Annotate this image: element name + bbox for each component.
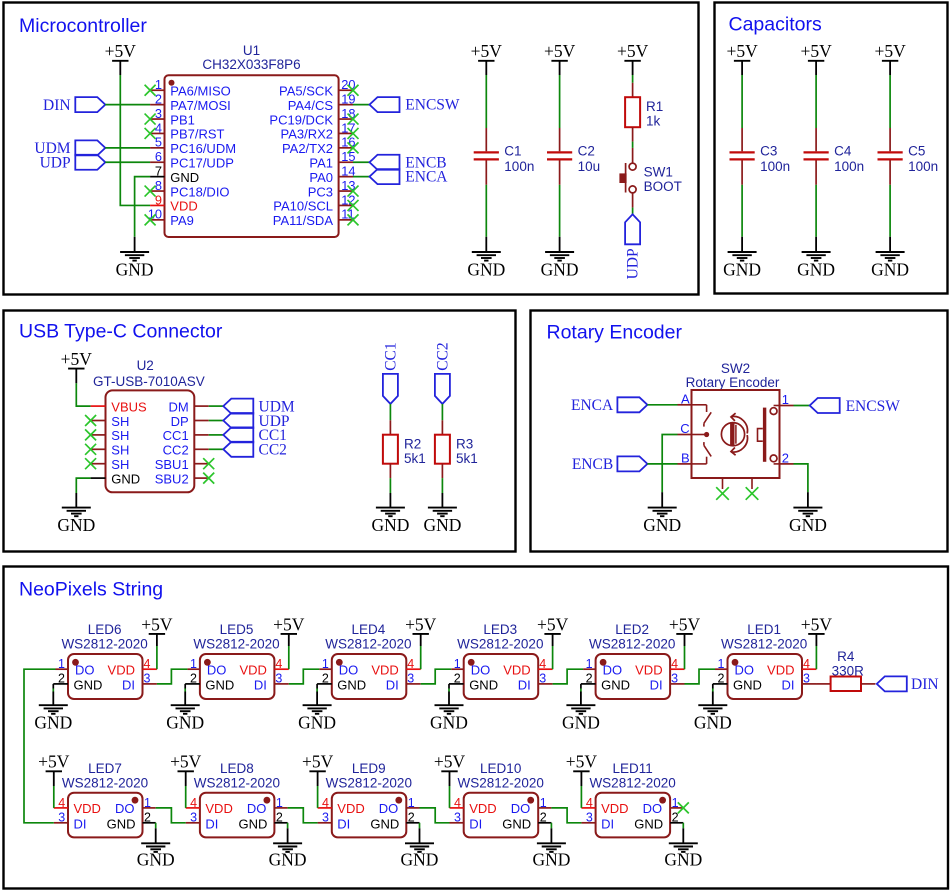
- pin 9 VDD (U1 left): [150, 192, 198, 213]
- svg-text:2: 2: [408, 811, 415, 825]
- svg-text:PA1: PA1: [309, 155, 333, 170]
- svg-text:PA6/MISO: PA6/MISO: [170, 83, 230, 98]
- wire LED7 DO to LED8 DI: [156, 808, 186, 823]
- wire LED10 DO to LED11 DI: [551, 808, 581, 823]
- svg-text:6: 6: [155, 149, 162, 164]
- capacitor C2 10u: [547, 128, 600, 185]
- svg-text:DI: DI: [386, 677, 399, 692]
- svg-text:VDD: VDD: [635, 663, 662, 678]
- svg-text:C3: C3: [760, 144, 777, 159]
- pin SH (U2 left): [91, 457, 130, 472]
- svg-text:2: 2: [155, 91, 162, 106]
- pin 8 PC18/DIO (U1 left): [150, 178, 229, 199]
- pin 2 GND (LED5): [185, 672, 234, 693]
- svg-text:CH32X033F8P6: CH32X033F8P6: [202, 57, 300, 72]
- ground GND (R3): [423, 493, 461, 535]
- svg-text:DI: DI: [122, 677, 135, 692]
- svg-text:WS2812-2020: WS2812-2020: [325, 636, 411, 651]
- power +5V (LED8): [170, 752, 202, 786]
- wire U2 GND pin to ground: [76, 478, 90, 493]
- hierarchical label ENCA (SW2): [571, 397, 647, 414]
- pin 1 (SW2): [780, 392, 794, 407]
- svg-text:PA9: PA9: [170, 213, 194, 228]
- pin CC2 (U2 right): [163, 443, 209, 458]
- wire UDM to U1 pin 5: [105, 147, 150, 149]
- svg-text:GND: GND: [116, 260, 154, 280]
- pin 1 DO (LED11): [643, 796, 684, 816]
- pin 2 GND (LED7): [107, 811, 156, 832]
- svg-text:3: 3: [58, 811, 65, 825]
- LED LED6 WS2812-2020: [53, 622, 157, 699]
- pin 4 VDD (LED5): [239, 657, 288, 678]
- pin 20 PA5/SCK (U1 right): [279, 77, 355, 98]
- wire DIN to U1 pin 2: [105, 104, 150, 106]
- svg-text:PB1: PB1: [170, 112, 195, 127]
- svg-text:1: 1: [718, 657, 725, 671]
- svg-text:4: 4: [155, 120, 162, 135]
- pin CC1 (U2 right): [163, 428, 209, 443]
- svg-text:WS2812-2020: WS2812-2020: [589, 775, 675, 790]
- svg-text:GND: GND: [337, 677, 366, 692]
- SW2 rotation knob: [721, 413, 747, 455]
- svg-text:GND: GND: [239, 816, 268, 831]
- ground GND (LED3): [430, 705, 468, 733]
- pin 1 DO (LED7): [115, 796, 156, 816]
- ground GND (SW2 C): [643, 492, 681, 535]
- hierarchical label ENCA (U1): [370, 169, 449, 186]
- power +5V (R1): [617, 41, 649, 75]
- svg-text:3: 3: [144, 672, 151, 686]
- svg-text:Rotary Encoder: Rotary Encoder: [686, 375, 780, 390]
- pin SH (U2 left): [91, 428, 130, 443]
- wire +5V to LED3 VDD: [552, 646, 554, 669]
- pin 14 PA0 (U1 right): [309, 163, 355, 184]
- pin 1 DO (LED1): [715, 657, 754, 678]
- svg-text:DO: DO: [471, 663, 491, 678]
- no-connect X (U1 pin 10): [145, 214, 156, 225]
- power +5V (U2): [61, 349, 93, 383]
- svg-text:DP: DP: [171, 414, 189, 429]
- op-amp U1 CH32X033F8P6 (MCU): [148, 43, 356, 237]
- pin DP (U2 right): [171, 414, 209, 429]
- svg-text:SH: SH: [111, 428, 129, 443]
- wire CC2 to R3: [441, 404, 443, 420]
- svg-text:GND: GND: [74, 677, 103, 692]
- pin 2 GND (LED1): [713, 672, 762, 693]
- svg-text:8: 8: [155, 178, 162, 193]
- svg-text:3: 3: [190, 811, 197, 825]
- svg-text:2: 2: [190, 672, 197, 686]
- resistor R1 1k: [625, 83, 663, 142]
- ground GND (LED4): [298, 705, 336, 733]
- svg-text:USB Type-C Connector: USB Type-C Connector: [19, 321, 223, 343]
- power +5V (C2): [544, 41, 576, 75]
- svg-text:1: 1: [276, 796, 283, 810]
- svg-text:VDD: VDD: [170, 199, 197, 214]
- wire U1 pin 14 to ENCA label: [353, 176, 370, 178]
- power +5V (C3): [726, 41, 758, 75]
- pin SBU1 (U2 right): [155, 457, 209, 472]
- wire +5V to C2: [559, 75, 561, 128]
- power +5V (C1): [471, 41, 503, 75]
- SW2 mounting pins with no-connect: [723, 478, 753, 489]
- svg-text:4: 4: [671, 657, 678, 671]
- pin 5 PC16/UDM (U1 left): [150, 135, 236, 156]
- SW2 push button contact: [758, 406, 780, 464]
- svg-text:R4: R4: [837, 649, 855, 664]
- svg-text:DI: DI: [469, 816, 482, 831]
- hierarchical label DIN: [43, 97, 105, 114]
- wire +5V to LED9 VDD: [317, 786, 319, 808]
- svg-text:GND: GND: [205, 677, 234, 692]
- LED LED2 WS2812-2020: [581, 622, 685, 699]
- ground GND (LED11): [664, 843, 702, 869]
- svg-text:1: 1: [540, 796, 547, 810]
- no-connect X (U1 pin 12): [348, 200, 359, 211]
- ground GND (C3): [723, 237, 761, 280]
- svg-text:GND: GND: [166, 713, 204, 733]
- pin 3 DI (LED9): [318, 811, 351, 832]
- svg-text:GND: GND: [694, 713, 732, 733]
- wire LED5 DO to LED6 DI: [157, 669, 188, 684]
- wire R3 to ground: [441, 478, 443, 493]
- ground GND (C5): [871, 237, 909, 280]
- svg-text:1: 1: [408, 796, 415, 810]
- ground GND (U2): [57, 493, 95, 535]
- wire LED7 GND pin to ground: [155, 823, 157, 844]
- svg-text:3: 3: [155, 106, 162, 121]
- pin 1 DO (LED2): [583, 657, 622, 678]
- svg-text:A: A: [681, 391, 690, 406]
- svg-text:CC2: CC2: [434, 342, 451, 370]
- svg-text:4: 4: [58, 796, 65, 810]
- pin 16 PA2/TX2 (U1 right): [282, 135, 356, 156]
- no-connect X (U1 pin 16): [348, 142, 359, 153]
- pin SH (U2 left): [91, 414, 130, 429]
- no-connect X (SW2 mount 2): [746, 487, 759, 500]
- hierarchical label CC2 (vertical): [434, 342, 451, 404]
- svg-text:LED7: LED7: [88, 761, 122, 776]
- svg-text:GT-USB-7010ASV: GT-USB-7010ASV: [93, 374, 205, 389]
- junction dot (SW2 common C): [704, 432, 709, 437]
- svg-text:SBU2: SBU2: [155, 471, 189, 486]
- svg-text:+5V: +5V: [537, 614, 569, 634]
- LED LED11 WS2812-2020: [581, 761, 683, 838]
- svg-text:C2: C2: [578, 144, 595, 159]
- ground GND (LED8): [269, 843, 307, 869]
- capacitor C3 100n: [730, 128, 791, 185]
- svg-text:WS2812-2020: WS2812-2020: [458, 775, 544, 790]
- power +5V (LED1): [801, 614, 833, 646]
- power +5V (LED2): [669, 614, 701, 646]
- no-connect X (U2 SH pin row 1): [85, 415, 96, 426]
- pin C (SW2): [678, 421, 692, 436]
- wire U2 DM to UDM label: [209, 405, 224, 407]
- hierarchical label DIN (NeoPixels): [877, 676, 939, 693]
- wire LED2 GND pin to ground: [580, 684, 582, 705]
- no-connect X (U2 SBU2): [203, 473, 214, 484]
- pin 3 DI (LED7): [54, 811, 87, 832]
- svg-text:GND: GND: [34, 713, 72, 733]
- pin 3 DI (LED6): [122, 672, 157, 693]
- wire LED2 DO to LED3 DI: [553, 669, 584, 684]
- svg-text:VDD: VDD: [337, 801, 364, 816]
- svg-text:2: 2: [586, 672, 593, 686]
- svg-text:VDD: VDD: [469, 801, 496, 816]
- svg-text:SH: SH: [111, 414, 129, 429]
- svg-text:+5V: +5V: [617, 41, 649, 61]
- hierarchical label UDP (U2): [223, 413, 289, 430]
- svg-text:WS2812-2020: WS2812-2020: [194, 775, 280, 790]
- svg-text:4: 4: [144, 657, 151, 671]
- svg-text:WS2812-2020: WS2812-2020: [326, 775, 412, 790]
- wire +5V to LED8 VDD: [185, 786, 187, 808]
- pin 2 (SW2): [780, 450, 794, 465]
- wire LED5 GND pin to ground: [184, 684, 186, 705]
- svg-text:3: 3: [586, 811, 593, 825]
- svg-text:PC18/DIO: PC18/DIO: [170, 184, 229, 199]
- svg-text:PC3: PC3: [308, 184, 333, 199]
- hierarchical label CC1 (U2): [223, 427, 287, 444]
- svg-text:+5V: +5V: [669, 614, 701, 634]
- svg-text:GND: GND: [467, 260, 505, 280]
- frame Rotary Encoder box: [531, 311, 948, 552]
- svg-text:LED3: LED3: [483, 622, 517, 637]
- svg-text:PC19/DCK: PC19/DCK: [269, 112, 333, 127]
- pin 4 VDD (LED3): [503, 657, 552, 678]
- ground GND (LED10): [532, 843, 570, 869]
- frame USB Type-C Connector box: [4, 311, 516, 552]
- pin 1 DO (LED5): [187, 657, 226, 678]
- svg-text:2: 2: [144, 811, 151, 825]
- pin 12 PA10/SCL (U1 right): [273, 192, 355, 213]
- pin SH (U2 left): [91, 443, 130, 458]
- svg-text:GND: GND: [562, 713, 600, 733]
- wire +5V to C3: [741, 75, 743, 128]
- pin 3 DI (LED1): [782, 672, 817, 693]
- svg-text:B: B: [681, 450, 690, 465]
- pin GND (U2 left): [91, 471, 141, 486]
- svg-text:PC17/UDP: PC17/UDP: [170, 155, 234, 170]
- svg-text:1: 1: [586, 657, 593, 671]
- no-connect X (U1 pin 11): [348, 214, 359, 225]
- hierarchical label UDM (U2): [223, 398, 295, 415]
- wire U2 CC1 to CC1 label: [209, 434, 224, 436]
- ground GND (LED2): [562, 705, 600, 733]
- pin 17 PA3/RX2 (U1 right): [280, 120, 355, 141]
- svg-text:VDD: VDD: [74, 801, 101, 816]
- wire LED10 GND pin to ground: [550, 823, 552, 844]
- svg-text:1: 1: [155, 77, 162, 92]
- wire SW2 pin 2 to ground: [794, 464, 808, 492]
- wire LED4 DO to LED5 DI: [289, 669, 320, 684]
- ground GND (C2): [541, 237, 579, 280]
- power +5V (LED7): [38, 752, 70, 786]
- hierarchical label UDM: [34, 140, 105, 157]
- svg-text:GND: GND: [423, 515, 461, 535]
- svg-text:2: 2: [454, 672, 461, 686]
- hierarchical label CC2 (U2): [223, 442, 287, 459]
- pin 4 VDD (LED6): [108, 657, 157, 678]
- svg-text:DO: DO: [115, 801, 135, 816]
- wire ENCA to SW2 pin A: [647, 404, 677, 406]
- svg-text:WS2812-2020: WS2812-2020: [193, 636, 279, 651]
- transistor SW1 BOOT (push switch): [619, 148, 681, 208]
- svg-text:GND: GND: [871, 260, 909, 280]
- svg-text:100n: 100n: [760, 159, 790, 174]
- pin SBU2 (U2 right): [155, 471, 209, 486]
- pin 4 VDD (LED11): [581, 796, 628, 816]
- svg-text:SW1: SW1: [644, 165, 673, 180]
- svg-text:4: 4: [586, 796, 593, 810]
- svg-text:3: 3: [454, 811, 461, 825]
- wire LED1 GND pin to ground: [712, 684, 714, 705]
- frame NeoPixels String box: [4, 567, 949, 889]
- wire LED1 DO to LED2 DI: [685, 669, 716, 684]
- svg-text:PA11/SDA: PA11/SDA: [273, 213, 334, 228]
- pin 4 VDD (LED4): [371, 657, 420, 678]
- pin 1 DO (LED4): [319, 657, 358, 678]
- svg-text:R3: R3: [456, 437, 473, 452]
- transistor SW2 Rotary Encoder (switch): [678, 361, 794, 500]
- wire +5V to LED10 VDD: [449, 786, 451, 808]
- svg-text:ENCSW: ENCSW: [846, 398, 901, 415]
- svg-text:PA7/MOSI: PA7/MOSI: [170, 98, 230, 113]
- svg-text:PC16/UDM: PC16/UDM: [170, 141, 236, 156]
- no-connect X (U1 pin 18): [348, 114, 359, 125]
- svg-text:10u: 10u: [578, 159, 601, 174]
- svg-text:GND: GND: [789, 515, 827, 535]
- frame Microcontroller box: [4, 3, 699, 295]
- hierarchical label ENCSW (SW2): [810, 398, 901, 415]
- svg-text:+5V: +5V: [61, 349, 93, 369]
- frame Capacitors box: [715, 3, 948, 294]
- svg-text:2: 2: [718, 672, 725, 686]
- LED LED1 WS2812-2020: [713, 622, 817, 699]
- svg-text:WS2812-2020: WS2812-2020: [61, 636, 147, 651]
- power +5V (LED3): [537, 614, 569, 646]
- wire C5 to ground: [889, 185, 891, 237]
- wire +5V to U2 VBUS: [76, 383, 90, 406]
- LED LED3 WS2812-2020: [449, 622, 553, 699]
- svg-text:3: 3: [275, 672, 282, 686]
- svg-text:VDD: VDD: [239, 663, 266, 678]
- svg-text:+5V: +5V: [801, 614, 833, 634]
- svg-text:LED6: LED6: [88, 622, 122, 637]
- svg-text:GND: GND: [733, 677, 762, 692]
- svg-text:LED5: LED5: [220, 622, 254, 637]
- svg-text:DIN: DIN: [911, 676, 939, 693]
- svg-text:2: 2: [782, 450, 789, 465]
- svg-text:LED8: LED8: [220, 761, 254, 776]
- svg-text:1k: 1k: [646, 113, 661, 128]
- no-connect X (U2 SH pin row 2): [85, 429, 96, 440]
- hierarchical label ENCB (U1): [370, 154, 447, 171]
- hierarchical label UDP: [40, 155, 106, 172]
- pin 1 DO (LED10): [511, 796, 552, 816]
- ground GND (SW2 pin 2): [789, 492, 827, 535]
- power +5V (LED11): [566, 752, 598, 786]
- svg-text:GND: GND: [634, 816, 663, 831]
- hierarchical label ENCB (SW2): [572, 456, 648, 473]
- wire C4 to ground: [815, 185, 817, 237]
- svg-text:+5V: +5V: [566, 752, 598, 772]
- svg-text:VDD: VDD: [503, 663, 530, 678]
- svg-text:+5V: +5V: [434, 752, 466, 772]
- svg-text:4: 4: [275, 657, 282, 671]
- svg-text:DO: DO: [339, 663, 359, 678]
- SW2 internal contacts: [692, 405, 712, 464]
- ground GND (LED9): [401, 843, 439, 869]
- svg-text:4: 4: [322, 796, 329, 810]
- wire +5V to LED4 VDD: [420, 646, 422, 669]
- wire +5V to LED2 VDD: [684, 646, 686, 669]
- wire LED6 DO down to LED7 DI (row link): [24, 669, 56, 823]
- svg-text:+5V: +5V: [471, 41, 503, 61]
- svg-text:R2: R2: [404, 437, 421, 452]
- resistor R3 5k1: [435, 420, 478, 478]
- svg-text:5k1: 5k1: [404, 451, 426, 466]
- svg-text:9: 9: [155, 192, 162, 207]
- pin 2 PA7/MOSI (U1 left): [150, 91, 231, 112]
- no-connect X (U1 pin 17): [348, 128, 359, 139]
- svg-text:LED10: LED10: [480, 761, 521, 776]
- svg-text:+5V: +5V: [800, 41, 832, 61]
- ground GND (LED1): [694, 705, 732, 733]
- svg-text:C: C: [680, 421, 689, 436]
- wire +5V to C4: [815, 75, 817, 128]
- svg-text:3: 3: [407, 672, 414, 686]
- svg-text:+5V: +5V: [405, 614, 437, 634]
- wire R1 to SW1: [632, 142, 634, 148]
- power +5V (LED10): [434, 752, 466, 786]
- svg-text:DO: DO: [75, 663, 95, 678]
- svg-text:BOOT: BOOT: [644, 179, 682, 194]
- capacitor C1 100n: [474, 128, 535, 185]
- pin 1 DO (LED8): [247, 796, 288, 816]
- svg-text:7: 7: [155, 163, 162, 178]
- svg-text:GND: GND: [170, 170, 199, 185]
- svg-text:GND: GND: [723, 260, 761, 280]
- svg-text:+5V: +5V: [273, 614, 305, 634]
- pin 2 GND (LED4): [317, 672, 366, 693]
- wire SW2 pin C to ground: [662, 435, 677, 493]
- wire ENCB to SW2 pin B: [647, 463, 677, 465]
- pin 11 PA11/SDA (U1 right): [273, 207, 355, 228]
- wire +5V to C5: [889, 75, 891, 128]
- wire SW2 pin 1 to ENCSW label: [794, 405, 810, 407]
- svg-text:DO: DO: [247, 801, 267, 816]
- svg-text:+5V: +5V: [726, 41, 758, 61]
- wire LED8 DO to LED9 DI: [288, 808, 318, 823]
- svg-text:VDD: VDD: [205, 801, 232, 816]
- svg-text:+5V: +5V: [105, 41, 137, 61]
- svg-text:WS2812-2020: WS2812-2020: [589, 636, 675, 651]
- no-connect X (SW2 mount 1): [716, 487, 729, 500]
- wire LED6 GND pin to ground: [52, 684, 54, 705]
- pin 4 PB7/RST (U1 left): [150, 120, 224, 141]
- wire LED9 GND pin to ground: [419, 823, 421, 844]
- svg-text:DI: DI: [205, 816, 218, 831]
- svg-text:DI: DI: [254, 677, 267, 692]
- svg-text:PB7/RST: PB7/RST: [170, 127, 224, 142]
- svg-text:UDP: UDP: [625, 248, 642, 279]
- ground GND (U1): [116, 237, 154, 280]
- pin 15 PA1 (U1 right): [309, 149, 355, 170]
- svg-text:VBUS: VBUS: [111, 399, 147, 414]
- no-connect X (U1 pin 8): [145, 186, 156, 197]
- svg-text:DO: DO: [643, 801, 663, 816]
